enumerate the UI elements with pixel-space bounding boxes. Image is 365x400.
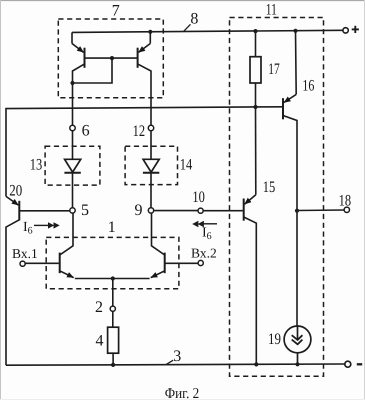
svg-text:18: 18: [339, 192, 352, 209]
wire: mirror base tie with junction: [70, 56, 137, 85]
wire: bottom negative rail (net 3): [6, 364, 345, 365]
diode D14: [143, 159, 159, 207]
node 6: [70, 123, 90, 140]
wire: long horizontal net at y=107.5 (Q20 emitter to Q16 base): [6, 107, 282, 197]
wire: resistor 4 to bottom rail: [111, 353, 115, 367]
svg-text:20: 20: [9, 183, 22, 200]
node 18 junction and wire: [295, 192, 351, 212]
transistor Q1b (right of diff pair): [151, 213, 198, 278]
terminal -: [345, 361, 362, 367]
transistor Q7a (left PNP of mirror 7): [72, 32, 85, 125]
terminal +: [343, 26, 359, 33]
resistor R17: [250, 29, 280, 109]
svg-text:3: 3: [173, 348, 181, 365]
dashed box 1 (differential pair block): [46, 237, 179, 288]
dashed box 11 (output block): [230, 18, 324, 377]
wire: node 10 to Q15 base: [203, 210, 243, 212]
svg-text:12: 12: [133, 123, 146, 140]
wire: tail down to node 2: [112, 279, 114, 307]
svg-text:9: 9: [135, 202, 143, 219]
svg-text:14: 14: [180, 157, 193, 174]
wire: common emitter line with junction: [75, 276, 150, 280]
current label I6 right with arrow: [192, 221, 217, 242]
dashed box 7 (current mirror block): [58, 19, 163, 98]
svg-text:1: 1: [108, 219, 116, 236]
transistor Q16 (upper PNP of output): [283, 29, 298, 326]
terminal Vx.2: [191, 246, 217, 266]
current label I6 left with arrow: [23, 220, 60, 237]
resistor R4: [96, 327, 119, 353]
current source 19: [284, 326, 311, 366]
svg-text:11: 11: [266, 1, 277, 18]
wire: node 2 to resistor 4: [112, 311, 114, 327]
label 3 leader tick: [166, 360, 173, 364]
node 2: [95, 299, 115, 316]
svg-text:19: 19: [268, 331, 281, 348]
wire: node 6 to diode 13: [72, 131, 74, 160]
svg-text:2: 2: [95, 299, 103, 316]
svg-text:I6: I6: [23, 220, 33, 237]
svg-text:I6: I6: [202, 226, 212, 243]
svg-text:5: 5: [81, 202, 89, 219]
svg-text:17: 17: [268, 61, 280, 78]
svg-text:8: 8: [190, 10, 198, 27]
svg-text:13: 13: [30, 157, 43, 174]
wire: node 9 to node 10: [154, 210, 198, 212]
transistor Q20 (left output PNP): [6, 196, 70, 365]
node 10: [192, 189, 205, 213]
svg-text:6: 6: [82, 123, 90, 140]
svg-text:Вх.2: Вх.2: [191, 246, 217, 261]
diode D13: [64, 159, 80, 207]
node 9: [135, 202, 154, 219]
terminal Vx.1: [12, 246, 38, 266]
svg-text:7: 7: [112, 3, 120, 20]
transistor Q1a (left of diff pair): [25, 213, 73, 278]
transistor Q15 (PNP follower): [244, 107, 259, 367]
node 5: [70, 202, 89, 219]
wire: top positive rail (net 8): [72, 30, 343, 32]
svg-text:16: 16: [302, 78, 314, 95]
wire: node 12 to diode 14: [150, 131, 152, 160]
transistor Q7b (right PNP of mirror 7): [138, 30, 153, 126]
svg-text:4: 4: [96, 332, 104, 349]
svg-text:15: 15: [263, 179, 276, 196]
svg-text:10: 10: [192, 189, 205, 206]
node 12: [133, 123, 154, 140]
svg-text:Фиг. 2: Фиг. 2: [165, 386, 200, 400]
dashed box around D13: [45, 146, 100, 185]
svg-text:Вх.1: Вх.1: [12, 246, 38, 261]
label 8 leader tick: [184, 24, 191, 31]
dashed box around D14: [125, 146, 177, 184]
